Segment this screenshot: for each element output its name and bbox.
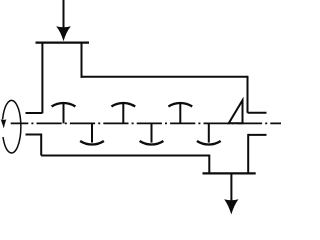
vessel top wall — [81, 76, 248, 78]
vessel lower-left wall — [40, 134, 42, 156]
shaft centerline (dash-dot axis) — [11, 122, 281, 124]
right shaft stub bottom — [248, 134, 266, 136]
upper paddle 3 stem — [179, 104, 181, 123]
lower paddle 3 blade arc — [197, 141, 221, 144]
upper paddle 1 stem — [63, 104, 65, 123]
inlet arrowhead — [56, 26, 71, 41]
outlet arrowhead — [224, 199, 238, 214]
right shaft stub top — [248, 112, 267, 114]
upper paddle 2 blade arc — [111, 103, 135, 106]
upper paddle 1 blade arc — [52, 103, 76, 106]
left shaft stub bottom — [26, 134, 42, 136]
rotation arrowhead — [1, 119, 7, 128]
vessel upper-right wall — [247, 76, 249, 113]
rotation arrow ellipse arc (shaft rotation symbol) — [3, 100, 21, 153]
left shaft stub top — [26, 112, 43, 114]
vessel bottom wall — [41, 155, 209, 157]
outlet left wall — [208, 155, 210, 174]
lower paddle 2 stem — [151, 124, 153, 143]
upper paddle 3 blade arc — [168, 103, 192, 106]
discharge flight triangle — [229, 100, 243, 123]
lower paddle 3 stem — [208, 124, 210, 143]
lower paddle 1 stem — [91, 124, 93, 143]
outlet bottom flange — [203, 172, 256, 174]
inlet hopper top flange line — [36, 41, 90, 43]
outlet arrow stem — [230, 174, 232, 201]
lower paddle 1 blade arc — [80, 141, 104, 144]
inlet arrow stem — [63, 0, 65, 29]
inlet right wall — [81, 43, 83, 78]
upper paddle 2 stem — [122, 104, 124, 123]
inlet left wall / vessel upper-left wall — [41, 43, 43, 114]
lower paddle 2 blade arc — [140, 141, 164, 144]
outlet right wall — [247, 134, 249, 174]
